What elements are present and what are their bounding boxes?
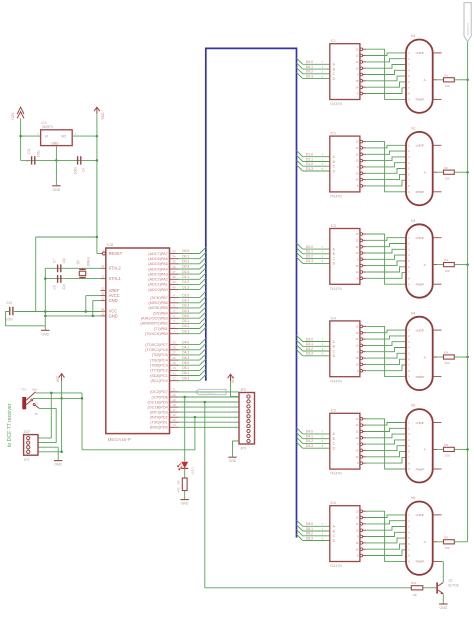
svg-text:3: 3: [408, 526, 410, 529]
svg-text:D4.1: D4.1: [182, 346, 189, 350]
svg-text:3: 3: [74, 132, 76, 136]
wire resistor R6 to anode rail: [454, 541, 467, 543]
display N1 (7-segment): [406, 34, 442, 113]
junction cap rail center: [55, 159, 58, 162]
svg-text:23: 23: [172, 371, 176, 375]
svg-text:13: 13: [356, 326, 359, 329]
svg-text:(OC1B)PD4: (OC1B)PD4: [148, 405, 168, 409]
svg-text:6: 6: [322, 536, 324, 540]
svg-text:4: 4: [408, 254, 410, 257]
svg-text:D5.3: D5.3: [182, 376, 189, 380]
svg-text:4: 4: [408, 347, 410, 350]
pin (ADC3)PA3 (37) right: [148, 270, 178, 277]
svg-text:5: 5: [408, 168, 410, 171]
svg-text:D3.1: D3.1: [182, 319, 189, 323]
svg-text:1: 1: [408, 144, 410, 147]
wire bottom cap rail: [21, 159, 97, 161]
svg-text:(OC1A)PD5: (OC1A)PD5: [148, 400, 168, 404]
svg-text:7: 7: [408, 364, 410, 367]
svg-text:5: 5: [408, 537, 410, 540]
svg-text:R11: R11: [411, 581, 417, 585]
junction VO/VCC: [96, 135, 99, 138]
svg-text:7: 7: [408, 87, 410, 90]
svg-text:12: 12: [356, 55, 359, 58]
svg-text:2: 2: [408, 520, 410, 523]
svg-text:D3.0: D3.0: [306, 337, 313, 341]
svg-text:R2: R2: [444, 166, 448, 170]
wire net D5.3 MCU to bus: [178, 375, 206, 381]
svg-text:74147N: 74147N: [330, 102, 342, 106]
junction anode rail stage 5: [466, 448, 469, 451]
svg-text:(TOSC2)PC7: (TOSC2)PC7: [145, 343, 168, 347]
svg-text:19: 19: [172, 398, 176, 402]
svg-text:R8: R8: [177, 480, 181, 484]
svg-text:RHDP: RHDP: [416, 283, 425, 287]
ground JP3: [228, 457, 237, 463]
junction VCC row / xtal gnd rail: [44, 310, 47, 313]
svg-text:D1.0: D1.0: [306, 153, 313, 157]
wire bundle IC2 outputs to display N2: [366, 142, 406, 192]
voltage regulator IC4 7805TV: [37, 121, 76, 145]
svg-text:1: 1: [408, 422, 410, 425]
wire net D4.2 bus to IC5: [297, 437, 330, 443]
svg-text:9: 9: [408, 283, 410, 286]
pin XTAL1 (13) left: [100, 274, 121, 281]
wire +12V to regulator VI and C11: [21, 118, 41, 160]
junction DCF pin4 row: [60, 451, 63, 454]
wire net D3.2 MCU to bus: [178, 322, 206, 328]
wire net D0.3 MCU to bus: [178, 263, 206, 269]
svg-text:14: 14: [356, 271, 359, 274]
pin (INT1)PD3 (17) right: [150, 408, 179, 415]
svg-text:D1.2: D1.2: [306, 162, 313, 166]
svg-text:GND: GND: [51, 141, 59, 145]
pin (TXD)PD1 (15) right: [150, 418, 178, 425]
svg-text:1: 1: [322, 250, 324, 254]
svg-text:11: 11: [356, 246, 359, 249]
wire display N2 anode to resistor: [437, 171, 444, 173]
wire net D1.1 bus to IC2: [297, 155, 330, 161]
wire net D3.1 bus to IC4: [297, 340, 330, 346]
svg-text:6: 6: [322, 444, 324, 448]
svg-text:15: 15: [356, 80, 359, 83]
transistor TS1 (DCF switch): [21, 387, 38, 409]
svg-text:16MHz: 16MHz: [87, 256, 91, 267]
wire bundle IC5 outputs to display N5: [366, 419, 406, 469]
svg-text:VCC: VCC: [101, 112, 105, 120]
capacitor C9 100n: [73, 156, 85, 174]
svg-text:LHDP: LHDP: [416, 144, 424, 148]
display N2 (7-segment): [406, 127, 442, 206]
svg-text:12: 12: [101, 264, 104, 268]
pin (TOSC2)PC7 (29) right: [145, 340, 178, 347]
svg-text:C: C: [333, 257, 336, 261]
svg-text:A: A: [424, 263, 427, 267]
svg-text:ser_data_clk: ser_data_clk: [200, 391, 216, 395]
svg-text:D0.2: D0.2: [306, 70, 313, 74]
svg-text:7: 7: [408, 272, 410, 275]
svg-text:IC2: IC2: [331, 132, 336, 136]
svg-text:TS1: TS1: [21, 387, 27, 391]
svg-text:D1.2: D1.2: [182, 280, 189, 284]
svg-text:B: B: [333, 529, 335, 533]
svg-text:A: A: [424, 540, 427, 544]
svg-text:5: 5: [408, 260, 410, 263]
svg-text:RHDP: RHDP: [416, 98, 425, 102]
svg-text:R1: R1: [444, 73, 448, 77]
wire PD5 to base resistor R11: [205, 402, 411, 588]
svg-text:3: 3: [408, 64, 410, 67]
svg-text:to DCF 77 receiver: to DCF 77 receiver: [7, 403, 13, 447]
svg-text:LED1: LED1: [190, 467, 194, 475]
svg-text:(ADC5)PA5: (ADC5)PA5: [148, 262, 168, 266]
svg-text:150: 150: [445, 546, 450, 550]
svg-text:A: A: [424, 78, 427, 82]
svg-text:(TOSC1)PC6: (TOSC1)PC6: [145, 348, 168, 352]
svg-text:D2.2: D2.2: [182, 304, 189, 308]
svg-text:A: A: [333, 63, 336, 67]
svg-text:2: 2: [408, 58, 410, 61]
wire net D5.2 MCU to bus: [178, 369, 206, 375]
pin (ADC4)PA4 (36) right: [148, 265, 178, 272]
wire DCF second row: [33, 397, 82, 399]
svg-text:4: 4: [408, 531, 410, 534]
ground regulator GND: [52, 186, 61, 192]
wire resistor R2 to anode rail: [454, 171, 467, 173]
svg-text:11: 11: [356, 61, 359, 64]
resistor R8 680: [177, 478, 188, 493]
svg-text:8: 8: [357, 277, 359, 280]
svg-text:4: 4: [408, 162, 410, 165]
svg-text:21: 21: [172, 388, 176, 392]
wire Q2 emitter to ground: [442, 594, 444, 603]
wire XTAL2 row: [45, 267, 100, 269]
svg-text:LHDP: LHDP: [416, 328, 424, 332]
display N4 (7-segment): [406, 311, 442, 390]
svg-text:D3.2: D3.2: [306, 347, 313, 351]
LED LED1: [178, 462, 195, 475]
supply VCC symbol (DCF): [56, 374, 65, 383]
pin (MISO)PB6 (7) right: [148, 299, 178, 306]
svg-text:74147N: 74147N: [330, 379, 342, 383]
svg-text:B: B: [333, 160, 335, 164]
wire J5 to JP2 pin2: [38, 408, 56, 442]
svg-text:9: 9: [357, 536, 359, 539]
wire common anode rail (right): [467, 42, 469, 542]
wire net D1.0 MCU to bus: [178, 268, 206, 274]
svg-text:IC1: IC1: [331, 39, 336, 43]
svg-text:9: 9: [357, 74, 359, 77]
svg-text:BCP28: BCP28: [448, 584, 458, 588]
svg-text:14: 14: [356, 364, 359, 367]
svg-text:D4.2: D4.2: [182, 351, 189, 355]
wire net D2.2 MCU to bus: [178, 302, 206, 308]
pin RESET (9) left: [100, 249, 122, 256]
svg-text:11: 11: [356, 153, 359, 156]
net flag on PD7 (serial data): [195, 389, 226, 394]
svg-text:(ADC6)PA6: (ADC6)PA6: [148, 257, 168, 261]
junction DCF VCC row: [60, 397, 63, 400]
jumper J5 contact: [33, 401, 39, 416]
junction PD5 / transistor branch: [204, 401, 207, 404]
svg-text:A: A: [333, 432, 336, 436]
svg-text:8: 8: [357, 555, 359, 558]
wire net D5.0 bus to IC6: [297, 520, 330, 526]
ground LED1: [181, 500, 190, 506]
svg-text:5: 5: [408, 75, 410, 78]
pin (OC2)PD7 (21) right: [150, 388, 178, 395]
wire net D0.0 bus to IC1: [297, 58, 330, 64]
svg-text:10: 10: [356, 437, 359, 440]
svg-text:Q1: Q1: [76, 260, 80, 264]
svg-text:74147N: 74147N: [330, 287, 342, 291]
svg-text:RESET: RESET: [109, 251, 123, 256]
svg-text:7: 7: [322, 430, 324, 434]
svg-text:6: 6: [408, 266, 410, 269]
svg-text:RHDP: RHDP: [416, 375, 425, 379]
resistor R6 150: [444, 535, 455, 550]
svg-text:6: 6: [408, 451, 410, 454]
svg-text:GND: GND: [109, 313, 118, 318]
svg-text:15: 15: [356, 450, 359, 453]
svg-text:IC4: IC4: [331, 316, 336, 320]
junction xtal rail XTAL1 row: [44, 277, 47, 280]
svg-text:D3.0: D3.0: [182, 314, 189, 318]
pin (ADC7)PA7 (33) right: [148, 249, 178, 256]
svg-text:+12V: +12V: [11, 112, 15, 121]
svg-text:2: 2: [322, 254, 324, 258]
svg-text:(TDO)PC4: (TDO)PC4: [150, 358, 168, 362]
svg-text:VCC: VCC: [231, 376, 235, 383]
svg-text:11: 11: [101, 312, 104, 316]
svg-text:J5: J5: [34, 412, 38, 416]
supply VCC symbol (JP3): [228, 374, 235, 383]
svg-text:150: 150: [445, 361, 450, 365]
resistor R3 150: [444, 258, 455, 273]
wire net D2.3 MCU to bus: [178, 307, 206, 313]
svg-text:D0.2: D0.2: [182, 260, 189, 264]
wire net D4.0 bus to IC5: [297, 428, 330, 434]
svg-text:RHDP: RHDP: [416, 190, 425, 194]
svg-text:14: 14: [356, 179, 359, 182]
svg-text:5: 5: [408, 352, 410, 355]
svg-text:D: D: [333, 447, 336, 451]
svg-text:6: 6: [322, 74, 324, 78]
svg-text:(ADC1)PA1: (ADC1)PA1: [148, 283, 168, 287]
svg-text:R6: R6: [444, 535, 448, 539]
svg-text:D1.3: D1.3: [182, 285, 189, 289]
svg-text:D0.3: D0.3: [306, 74, 313, 78]
svg-text:N6: N6: [411, 496, 415, 500]
svg-text:A: A: [333, 247, 336, 251]
junction PD6 / LED branch: [183, 396, 186, 399]
wire GND row to MCU: [45, 315, 100, 317]
svg-text:(MISO)PB6: (MISO)PB6: [148, 301, 167, 305]
svg-text:8: 8: [357, 370, 359, 373]
svg-text:8: 8: [408, 278, 410, 281]
decoder IC5 74147N: [330, 409, 366, 476]
pin (T0/XCK)PB0 (1) right: [145, 330, 179, 337]
resistor R4 150: [444, 351, 455, 366]
svg-text:7: 7: [322, 245, 324, 249]
pin header JP2 DCF: [24, 430, 38, 462]
pin (SCK)PB7 (8) right: [150, 293, 178, 300]
junction anode rail stage 4: [466, 356, 469, 359]
svg-text:Q2: Q2: [448, 579, 452, 583]
wire resistor R4 to anode rail: [454, 356, 467, 358]
svg-text:D4.0: D4.0: [182, 340, 189, 344]
wire net D5.2 bus to IC6: [297, 530, 330, 536]
wire JP2 pin3 to ground: [38, 447, 58, 460]
svg-text:2: 2: [37, 401, 39, 405]
svg-text:8: 8: [173, 293, 175, 297]
wire net D1.3 MCU to bus: [178, 283, 206, 289]
capacitor C8 22p: [52, 275, 66, 290]
wire DCF data row top: [36, 392, 82, 394]
svg-text:D5.1: D5.1: [306, 527, 313, 531]
wire net D0.0 MCU to bus: [178, 247, 206, 253]
svg-text:9: 9: [357, 166, 359, 169]
svg-text:8: 8: [408, 462, 410, 465]
wire AVCC branch: [86, 296, 101, 312]
svg-text:12: 12: [356, 332, 359, 335]
svg-text:150: 150: [445, 269, 450, 273]
svg-text:C7: C7: [52, 259, 56, 263]
svg-text:1: 1: [408, 52, 410, 55]
svg-text:+: +: [26, 159, 28, 163]
svg-text:VCC: VCC: [56, 375, 60, 382]
pin (TOSC1)PC6 (28) right: [145, 346, 178, 353]
svg-text:8: 8: [357, 93, 359, 96]
wire reset branch to left: [36, 237, 97, 312]
svg-text:24: 24: [172, 366, 176, 370]
pin VCC (10) left: [100, 307, 117, 314]
svg-text:(ADC4)PA4: (ADC4)PA4: [148, 267, 168, 271]
svg-text:74147N: 74147N: [330, 195, 342, 199]
svg-text:D4.3: D4.3: [306, 444, 313, 448]
svg-text:39: 39: [172, 280, 176, 284]
svg-text:(OC2)PD7: (OC2)PD7: [150, 390, 168, 394]
svg-text:2: 2: [322, 162, 324, 166]
svg-text:JP3: JP3: [240, 388, 246, 392]
svg-text:D1.0: D1.0: [182, 270, 189, 274]
svg-text:JP2: JP2: [24, 458, 30, 462]
svg-text:IC5: IC5: [331, 409, 336, 413]
svg-text:2: 2: [408, 427, 410, 430]
wire net D0.2 MCU to bus: [178, 258, 206, 264]
svg-text:VI: VI: [45, 135, 48, 139]
svg-text:D0.0: D0.0: [182, 249, 189, 253]
resistor R11 10k: [411, 581, 423, 597]
display N6 (7-segment): [406, 496, 442, 575]
svg-text:D: D: [333, 77, 336, 81]
wire net D4.1 bus to IC5: [297, 433, 330, 439]
svg-text:A: A: [333, 525, 336, 529]
svg-text:C: C: [333, 165, 336, 169]
svg-text:D4.0: D4.0: [306, 430, 313, 434]
svg-text:D: D: [333, 169, 336, 173]
svg-text:10: 10: [356, 160, 359, 163]
junction anode rail stage 1: [466, 79, 469, 82]
svg-text:15: 15: [356, 357, 359, 360]
wire VCC rail down to RESET: [97, 114, 101, 253]
svg-text:A: A: [424, 355, 427, 359]
svg-text:20: 20: [172, 393, 176, 397]
svg-text:DCF: DCF: [24, 430, 31, 434]
wire bundle IC4 outputs to display N4: [366, 326, 406, 376]
svg-text:8: 8: [408, 555, 410, 558]
svg-text:(SCK)PB7: (SCK)PB7: [150, 296, 168, 300]
pin (ADC2)PA2 (38) right: [148, 275, 178, 282]
decoder IC2 74147N: [330, 132, 366, 199]
svg-text:D1.1: D1.1: [182, 275, 189, 279]
wire net D0.1 MCU to bus: [178, 253, 206, 259]
capacitor C15 100n decoupling: [6, 301, 13, 322]
svg-text:10: 10: [356, 529, 359, 532]
svg-text:D: D: [333, 354, 336, 358]
svg-text:10: 10: [356, 252, 359, 255]
svg-text:D2.2: D2.2: [306, 254, 313, 258]
pin (SS)PB4 (5) right: [153, 309, 178, 316]
svg-text:GND: GND: [181, 502, 189, 506]
svg-text:C: C: [333, 442, 336, 446]
svg-text:8: 8: [408, 93, 410, 96]
svg-text:C: C: [333, 72, 336, 76]
wire net D5.1 bus to IC6: [297, 525, 330, 531]
display N3 (7-segment): [406, 219, 442, 298]
svg-text:(TMS)PC3: (TMS)PC3: [150, 364, 168, 368]
pin AREF (32) left: [100, 286, 120, 293]
pin (OC1B)PD4 (18) right: [148, 403, 179, 410]
svg-text:14: 14: [356, 548, 359, 551]
svg-text:11: 11: [356, 338, 359, 341]
pin (AIN1/OC0)PB3 (4) right: [141, 314, 179, 321]
svg-text:B0+: B0+: [32, 387, 38, 391]
svg-text:C8: C8: [52, 285, 56, 289]
svg-text:6: 6: [322, 167, 324, 171]
svg-text:2: 2: [408, 335, 410, 338]
pin (TDO)PC4 (26) right: [150, 356, 179, 363]
net flag DISPLAY (top right): [464, 3, 471, 42]
svg-text:15: 15: [356, 172, 359, 175]
svg-text:9: 9: [408, 561, 410, 564]
resistor R5 150: [444, 443, 455, 458]
svg-text:4: 4: [408, 69, 410, 72]
wire JP2 pin4 branch: [38, 451, 62, 453]
svg-text:9: 9: [357, 351, 359, 354]
wire bundle MCU port D to JP3: [178, 392, 239, 427]
svg-text:GND: GND: [440, 606, 448, 610]
svg-text:N2: N2: [411, 127, 415, 131]
svg-text:11: 11: [356, 431, 359, 434]
svg-text:IC3: IC3: [331, 224, 336, 228]
svg-text:D4.2: D4.2: [306, 439, 313, 443]
svg-text:2: 2: [408, 243, 410, 246]
svg-text:D2.1: D2.1: [306, 250, 313, 254]
svg-text:13: 13: [101, 274, 104, 278]
svg-text:LHDP: LHDP: [416, 421, 424, 425]
svg-text:(T1)PB1: (T1)PB1: [154, 327, 168, 331]
svg-text:(TXD)PD1: (TXD)PD1: [150, 421, 168, 425]
svg-text:6: 6: [408, 81, 410, 84]
decoder IC3 74147N: [330, 224, 366, 291]
pin (ADC1)PA1 (39) right: [148, 280, 178, 287]
wire net D2.3 bus to IC3: [297, 257, 330, 263]
svg-text:13: 13: [356, 48, 359, 51]
pin (INT0)PD2 (16) right: [150, 413, 179, 420]
junction GND pins tie: [92, 315, 95, 318]
svg-text:A: A: [424, 171, 427, 175]
